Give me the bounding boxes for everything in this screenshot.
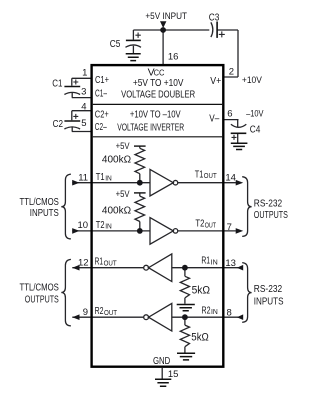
svg-text:C2+: C2+ <box>95 109 109 121</box>
svg-text:16: 16 <box>168 51 179 62</box>
svg-text:C4: C4 <box>250 124 261 135</box>
svg-text:OUT: OUT <box>104 261 118 268</box>
svg-text:T2: T2 <box>195 219 204 230</box>
svg-text:C2–: C2– <box>95 121 107 133</box>
svg-text:–10V: –10V <box>246 109 264 120</box>
svg-text:+10V: +10V <box>242 75 263 86</box>
svg-text:4: 4 <box>81 102 86 113</box>
svg-text:3: 3 <box>81 87 86 98</box>
svg-text:8: 8 <box>227 308 232 319</box>
svg-text:INPUTS: INPUTS <box>30 207 59 219</box>
svg-text:IN: IN <box>211 260 218 267</box>
svg-text:RS-232: RS-232 <box>254 198 283 210</box>
svg-text:OUT: OUT <box>104 310 118 317</box>
svg-text:IN: IN <box>105 224 112 231</box>
svg-text:R1: R1 <box>201 256 210 267</box>
svg-text:OUT: OUT <box>204 173 218 180</box>
svg-text:+5V TO +10V: +5V TO +10V <box>133 77 184 89</box>
svg-text:400kΩ: 400kΩ <box>102 153 131 165</box>
svg-text:10: 10 <box>78 220 89 231</box>
svg-text:+10V TO –10V: +10V TO –10V <box>130 109 181 121</box>
svg-text:INPUTS: INPUTS <box>254 296 284 308</box>
svg-text:T2: T2 <box>96 220 105 231</box>
svg-text:OUT: OUT <box>205 223 217 230</box>
svg-text:IN: IN <box>211 309 218 316</box>
svg-text:TTL/CMOS: TTL/CMOS <box>20 282 59 294</box>
svg-text:C1–: C1– <box>95 88 107 100</box>
svg-text:+5V: +5V <box>116 189 130 199</box>
svg-text:R2: R2 <box>202 305 211 316</box>
svg-text:VOLTAGE INVERTER: VOLTAGE INVERTER <box>117 122 184 134</box>
svg-text:VOLTAGE DOUBLER: VOLTAGE DOUBLER <box>121 88 195 100</box>
svg-text:12: 12 <box>78 258 89 269</box>
svg-text:14: 14 <box>225 172 236 183</box>
svg-text:5kΩ: 5kΩ <box>191 332 209 344</box>
svg-text:2: 2 <box>229 67 234 78</box>
svg-text:15: 15 <box>168 369 179 380</box>
svg-text:R2: R2 <box>95 306 104 317</box>
svg-text:OUTPUTS: OUTPUTS <box>25 293 59 305</box>
svg-text:R1: R1 <box>95 257 104 268</box>
svg-text:T1: T1 <box>195 169 204 180</box>
svg-text:C3: C3 <box>209 13 220 24</box>
svg-text:5: 5 <box>81 118 86 129</box>
svg-text:9: 9 <box>83 307 88 318</box>
svg-text:CC: CC <box>154 68 165 77</box>
svg-text:C5: C5 <box>110 39 121 50</box>
svg-text:400kΩ: 400kΩ <box>102 205 131 217</box>
svg-text:V+: V+ <box>210 75 221 87</box>
svg-text:1: 1 <box>82 67 87 78</box>
svg-text:C1+: C1+ <box>95 74 109 86</box>
svg-text:11: 11 <box>78 172 88 183</box>
svg-text:5kΩ: 5kΩ <box>192 284 211 296</box>
svg-text:RS-232: RS-232 <box>254 283 283 295</box>
svg-text:13: 13 <box>225 258 236 269</box>
svg-text:C1: C1 <box>52 79 63 90</box>
svg-text:7: 7 <box>227 222 232 233</box>
svg-text:C2: C2 <box>53 119 64 130</box>
svg-text:OUTPUTS: OUTPUTS <box>254 209 288 221</box>
svg-text:6: 6 <box>227 109 232 120</box>
svg-text:+5V: +5V <box>116 141 130 151</box>
svg-text:IN: IN <box>105 176 112 183</box>
svg-text:T1: T1 <box>96 172 105 183</box>
svg-text:+5V INPUT: +5V INPUT <box>145 11 187 21</box>
svg-text:GND: GND <box>153 355 171 367</box>
svg-text:V–: V– <box>209 113 219 125</box>
